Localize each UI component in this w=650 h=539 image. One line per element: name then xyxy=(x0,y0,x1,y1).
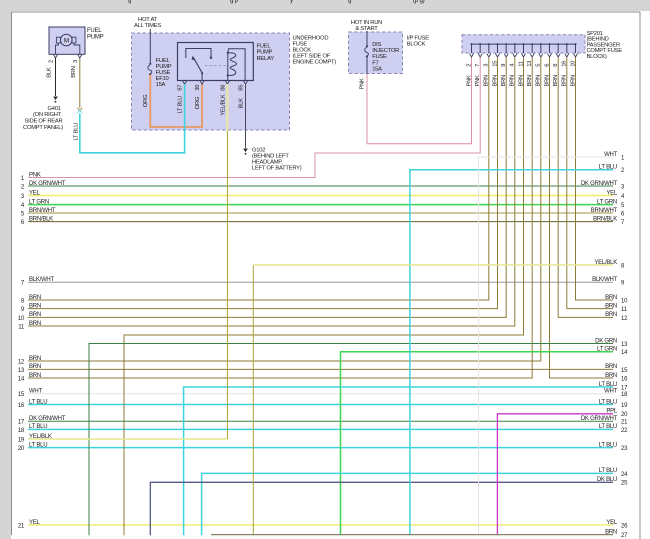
svg-text:14: 14 xyxy=(18,376,25,382)
relay pin 85 terminal xyxy=(244,81,248,84)
svg-text:9: 9 xyxy=(501,64,507,67)
SP201 pin 8 stub xyxy=(557,43,559,45)
svg-text:DIS: DIS xyxy=(372,42,381,48)
svg-text:13: 13 xyxy=(18,368,25,374)
svg-text:8: 8 xyxy=(553,64,559,67)
svg-text:6: 6 xyxy=(544,64,550,67)
svg-text:12: 12 xyxy=(18,359,25,365)
svg-text:21: 21 xyxy=(18,523,25,529)
svg-text:16: 16 xyxy=(562,61,568,67)
wire hot feed into fuse EF10 xyxy=(149,29,151,64)
svg-text:LT BLU: LT BLU xyxy=(599,424,617,430)
svg-text:BRN/BLK: BRN/BLK xyxy=(593,216,617,222)
svg-text:LT BLU: LT BLU xyxy=(29,399,47,405)
SP201 pin 9 stub xyxy=(505,43,507,45)
svg-text:ORG: ORG xyxy=(195,96,201,109)
fuel pump pin 2 terminal xyxy=(54,55,58,58)
wire row L11 BRN to SP201 pin 4 xyxy=(28,58,515,327)
svg-text:17: 17 xyxy=(621,385,628,391)
svg-text:3: 3 xyxy=(73,60,79,63)
svg-text:19: 19 xyxy=(621,403,628,409)
svg-text:BLOCK: BLOCK xyxy=(407,42,426,48)
wire row R1 WHT with drop at x=478.5 xyxy=(479,157,614,535)
wire row R10 BRN to SP201 pin 10 xyxy=(576,58,614,301)
svg-text:G401: G401 xyxy=(48,106,61,112)
svg-text:YEL: YEL xyxy=(606,190,618,196)
wire row L17/R21 DK GRN/WHT xyxy=(28,420,613,422)
fuse EF10 symbol xyxy=(149,63,151,65)
svg-text:BRN: BRN xyxy=(518,75,524,87)
svg-text:30: 30 xyxy=(195,85,201,91)
svg-text:BRN: BRN xyxy=(553,75,559,87)
svg-text:FUSE: FUSE xyxy=(372,54,387,60)
svg-text:15: 15 xyxy=(18,392,25,398)
svg-text:DK BLU: DK BLU xyxy=(597,477,617,483)
svg-text:BRN: BRN xyxy=(29,356,41,362)
svg-text:BRN: BRN xyxy=(527,75,533,87)
svg-text:16: 16 xyxy=(18,403,25,409)
svg-text:PUMP: PUMP xyxy=(87,34,104,40)
SP201 pin 7 stub xyxy=(479,43,481,45)
svg-text:LT BLU: LT BLU xyxy=(599,382,617,388)
svg-text:14: 14 xyxy=(621,350,628,356)
svg-text:DK GRN: DK GRN xyxy=(595,338,617,344)
wire row L9 BRN to SP201 pin 15 xyxy=(28,58,498,309)
svg-text:BRN: BRN xyxy=(570,75,576,87)
fuel pump relay box xyxy=(178,43,254,81)
SP201 pin 2 stub xyxy=(471,43,473,45)
svg-text:BLOCK: BLOCK xyxy=(293,48,312,54)
svg-text:PUMP: PUMP xyxy=(257,50,273,56)
svg-text:G102: G102 xyxy=(252,148,265,154)
wire row L4/R5 LT GRN xyxy=(28,204,613,206)
svg-text:13: 13 xyxy=(527,61,533,67)
wire row L2/R3 DK GRN/WHT xyxy=(28,185,613,187)
underhood fuse block dashed box xyxy=(132,33,290,130)
svg-text:17: 17 xyxy=(18,420,25,426)
relay pin 30 terminal xyxy=(200,81,204,84)
SP201 pin 4 stub xyxy=(514,43,516,45)
SP201 pin 10 stub xyxy=(575,43,577,45)
svg-text:2: 2 xyxy=(466,64,472,67)
fuel pump motor M symbol xyxy=(61,34,73,46)
svg-text:ENGINE COMPT): ENGINE COMPT) xyxy=(293,60,337,66)
wire row R20 PPL with drop at x=497.4 xyxy=(497,414,613,535)
svg-text:g p: g p xyxy=(230,0,239,4)
svg-text:LT BLU: LT BLU xyxy=(29,424,47,430)
svg-text:PNK: PNK xyxy=(360,78,366,90)
svg-text:BRN: BRN xyxy=(29,312,41,318)
svg-text:BRN: BRN xyxy=(605,373,617,379)
svg-text:DK GRN/WHT: DK GRN/WHT xyxy=(581,181,618,187)
svg-text:BRN: BRN xyxy=(29,373,41,379)
svg-text:LEFT OF BATTERY): LEFT OF BATTERY) xyxy=(252,165,302,171)
wire row L20/R23 LT BLU xyxy=(28,447,613,449)
wire row R16 BRN to SP201 pin 6 xyxy=(550,58,614,379)
wire row L8 BRN to SP201 pin 3 xyxy=(28,58,489,301)
svg-text:12: 12 xyxy=(621,316,628,322)
fuel pump component box xyxy=(49,27,85,54)
svg-text:26: 26 xyxy=(621,523,628,529)
svg-text:BRN: BRN xyxy=(605,529,617,535)
wire row L6/R7 BRN/BLK xyxy=(28,221,613,223)
SP201 pin 6 stub xyxy=(549,43,551,45)
svg-text:BRN: BRN xyxy=(510,75,516,87)
svg-text:HOT AT: HOT AT xyxy=(138,17,158,23)
svg-text:15A: 15A xyxy=(372,67,382,73)
svg-text:RELAY: RELAY xyxy=(257,56,275,62)
svg-text:ORG: ORG xyxy=(143,94,149,107)
svg-text:LT GRN: LT GRN xyxy=(597,347,617,353)
relay coil xyxy=(227,52,229,54)
svg-text:DK GRN/WHT: DK GRN/WHT xyxy=(581,416,618,422)
wire hot feed into fuse F7 xyxy=(366,31,368,46)
svg-text:24: 24 xyxy=(621,472,628,478)
svg-text:BRN: BRN xyxy=(29,295,41,301)
svg-text:WHT: WHT xyxy=(604,389,617,395)
svg-text:10: 10 xyxy=(18,316,25,322)
svg-text:3: 3 xyxy=(484,64,490,67)
wire row L12 BRN to SP201 pin 5 xyxy=(28,58,541,362)
svg-text:WHT: WHT xyxy=(604,152,617,158)
svg-text:87: 87 xyxy=(178,85,184,91)
svg-text:BRN: BRN xyxy=(71,66,77,78)
svg-text:BLOCK): BLOCK) xyxy=(587,54,607,60)
ground G401 xyxy=(53,97,58,101)
svg-text:WHT: WHT xyxy=(29,389,42,395)
fuel pump brush right xyxy=(72,37,76,43)
svg-text:DK GRN/WHT: DK GRN/WHT xyxy=(29,416,66,422)
wire BLK fuel pump to G401 xyxy=(55,58,57,96)
svg-text:LT BLU: LT BLU xyxy=(599,399,617,405)
wire row L21/R26 YEL xyxy=(28,524,613,526)
wire row L16/R19 LT BLU xyxy=(28,404,613,406)
svg-text:BRN: BRN xyxy=(544,75,550,87)
svg-text:18: 18 xyxy=(18,428,25,434)
wire row L10 BRN to SP201 pin 9 xyxy=(28,58,506,318)
svg-text:SIDE OF REAR: SIDE OF REAR xyxy=(25,119,63,125)
relay pin 86 terminal xyxy=(225,81,229,84)
wire LT BLU relay pin 87 inside box xyxy=(184,84,186,132)
wire row L14 BRN to SP201 pin 13 xyxy=(28,58,532,379)
SP201 pin 5 stub xyxy=(540,43,542,45)
wire row L5/R6 BRN/WHT xyxy=(28,212,613,214)
svg-text:25: 25 xyxy=(621,481,628,487)
svg-text:LT BLU: LT BLU xyxy=(599,165,617,171)
relay pin 87 terminal xyxy=(183,81,187,84)
svg-text:LT BLU: LT BLU xyxy=(29,442,47,448)
SP201 pin 16 stub xyxy=(566,43,568,45)
wire row R2 LT BLU with drop at x=409.9 xyxy=(410,170,613,535)
svg-text:BRN: BRN xyxy=(29,303,41,309)
relay switch blade with arrowhead xyxy=(193,57,202,73)
wire row R17 LT BLU with drop at x=183.6 xyxy=(184,387,613,535)
svg-text:BRN/BLK: BRN/BLK xyxy=(29,216,53,222)
wire BRN fuel pump to splice xyxy=(79,58,81,108)
svg-text:21: 21 xyxy=(621,420,628,426)
wire LT BLU splice toward relay pin 87 (below fuse block) xyxy=(80,113,185,152)
svg-text:85: 85 xyxy=(239,85,245,91)
inline connector break symbol xyxy=(78,108,82,110)
wire row L3/R4 YEL xyxy=(28,195,613,197)
fuel pump pin 3 terminal xyxy=(78,55,82,58)
svg-text:BRN: BRN xyxy=(562,75,568,87)
svg-text:PNK: PNK xyxy=(466,75,472,87)
svg-text:M: M xyxy=(64,38,69,45)
wire row L7/R9 BLK/WHT xyxy=(28,281,613,283)
svg-text:(ON RIGHT: (ON RIGHT xyxy=(33,112,62,118)
svg-text:18: 18 xyxy=(621,392,628,398)
svg-text:EF10: EF10 xyxy=(156,76,169,82)
svg-text:LT BLU: LT BLU xyxy=(599,442,617,448)
svg-text:BRN: BRN xyxy=(605,303,617,309)
svg-text:BLK: BLK xyxy=(47,67,53,78)
relay actuation dashed link xyxy=(205,65,226,67)
svg-text:DK GRN/WHT: DK GRN/WHT xyxy=(29,181,66,187)
SP201 splice pack dashed box xyxy=(462,35,585,53)
svg-text:20: 20 xyxy=(621,412,628,418)
wire row R11 BRN to SP201 pin 16 xyxy=(567,58,613,309)
svg-text:YEL: YEL xyxy=(29,520,41,526)
SP201 pin 3 stub xyxy=(488,43,490,45)
wire ORG fuse EF10 to relay pin 30 xyxy=(150,75,202,127)
wire BRN SP201 pin 11 down page bottom via x=124 xyxy=(124,58,524,536)
svg-text:COMPT PANEL): COMPT PANEL) xyxy=(23,125,63,131)
svg-text:YEL/BLK: YEL/BLK xyxy=(29,434,52,440)
svg-text:PPL: PPL xyxy=(606,409,618,415)
svg-text:10: 10 xyxy=(570,61,576,67)
relay switch contact bracket xyxy=(186,49,211,59)
wire row R13 DK GRN with drop at x=89 xyxy=(89,344,613,536)
svg-text:13: 13 xyxy=(621,342,628,348)
wire row L19 YEL/BLK to relay pin 86 xyxy=(28,438,227,440)
svg-text:LT BLU: LT BLU xyxy=(178,96,184,114)
svg-text:BRN/WHT: BRN/WHT xyxy=(29,208,56,214)
fuel pump internal wires to pins xyxy=(56,43,59,54)
svg-text:BRN: BRN xyxy=(492,75,498,87)
svg-text:UNDERHOOD: UNDERHOOD xyxy=(293,35,329,41)
svg-text:BRN: BRN xyxy=(484,75,490,87)
svg-text:15: 15 xyxy=(621,368,628,374)
svg-text:15: 15 xyxy=(492,61,498,67)
svg-text:BLK/WHT: BLK/WHT xyxy=(592,277,618,283)
svg-text:BRN: BRN xyxy=(29,364,41,370)
wire row L13/R15 BRN xyxy=(28,368,613,370)
svg-text:LT GRN: LT GRN xyxy=(597,199,617,205)
svg-text:(p g): (p g) xyxy=(413,0,425,4)
svg-text:ALL TIMES: ALL TIMES xyxy=(134,23,161,29)
svg-text:(LEFT SIDE OF: (LEFT SIDE OF xyxy=(293,54,331,60)
svg-text:FUSE: FUSE xyxy=(293,41,308,47)
svg-text:BLK: BLK xyxy=(239,98,245,109)
svg-text:I/P FUSE: I/P FUSE xyxy=(407,35,429,41)
svg-text:BRN: BRN xyxy=(501,75,507,87)
svg-text:PNK: PNK xyxy=(29,172,41,178)
svg-text:F7: F7 xyxy=(372,60,378,66)
svg-text:YEL/BLK: YEL/BLK xyxy=(594,260,617,266)
wire YEL/BLK relay pin 86 inside box xyxy=(226,84,228,131)
svg-text:BRN: BRN xyxy=(605,312,617,318)
svg-text:7: 7 xyxy=(475,64,481,67)
svg-text:BRN: BRN xyxy=(29,321,41,327)
SP201 pin 11 stub xyxy=(523,43,525,45)
SP201 pin 15 stub xyxy=(497,43,499,45)
svg-text:PNK: PNK xyxy=(475,75,481,87)
svg-text:11: 11 xyxy=(518,61,524,67)
wire PNK from DIS fuse to SP201 pin 2 xyxy=(367,58,472,144)
wire row R25 DK BLU with drop at x=150.3 xyxy=(150,482,613,535)
SP201 bus bar xyxy=(472,43,576,45)
svg-text:23: 23 xyxy=(621,446,628,452)
wire row R8 YEL/BLK drop at x=253.3 xyxy=(252,265,254,535)
svg-text:86: 86 xyxy=(220,85,226,91)
svg-text:10: 10 xyxy=(621,298,628,304)
wire row R27 BRN bottom xyxy=(211,534,613,536)
svg-text:15A: 15A xyxy=(156,82,166,88)
svg-text:27: 27 xyxy=(621,533,628,539)
svg-text:22: 22 xyxy=(621,428,628,434)
svg-text:BRN: BRN xyxy=(605,364,617,370)
svg-text:YEL/BLK: YEL/BLK xyxy=(220,94,226,115)
wire row R24 LT BLU with drop at x=201.6 xyxy=(202,473,613,535)
fuse F7 symbol xyxy=(366,45,368,47)
SP201 pin 13 stub xyxy=(531,43,533,45)
wire row R12 BRN to SP201 pin 8 xyxy=(558,58,613,318)
wire row L15/R18 WHT xyxy=(28,393,613,395)
svg-text:YEL: YEL xyxy=(29,190,41,196)
wire BLK relay pin 85 to G102 xyxy=(245,84,247,148)
svg-text:16: 16 xyxy=(621,376,628,382)
svg-text:BRN/WHT: BRN/WHT xyxy=(591,208,618,214)
svg-text:11: 11 xyxy=(18,324,25,330)
svg-text:11: 11 xyxy=(621,307,628,313)
wire row L18/R22 LT BLU xyxy=(28,428,613,430)
svg-text:LT BLU: LT BLU xyxy=(73,123,79,141)
svg-text:20: 20 xyxy=(18,446,25,452)
svg-text:19: 19 xyxy=(18,437,25,443)
svg-text:LT BLU: LT BLU xyxy=(599,468,617,474)
svg-text:LT GRN: LT GRN xyxy=(29,199,49,205)
svg-text:BLK/WHT: BLK/WHT xyxy=(29,277,55,283)
svg-text:INJECTOR: INJECTOR xyxy=(372,48,399,54)
svg-text:BRN: BRN xyxy=(536,75,542,87)
svg-text:5: 5 xyxy=(536,64,542,67)
ground G102 xyxy=(243,149,248,153)
svg-text:BRN: BRN xyxy=(605,295,617,301)
svg-text:2: 2 xyxy=(49,60,55,63)
wire row R14 LT GRN with drop at x=340.5 xyxy=(341,352,614,535)
svg-text:YEL: YEL xyxy=(606,520,618,526)
svg-text:FUEL: FUEL xyxy=(87,28,102,34)
fuel pump brush left xyxy=(56,37,60,43)
wire row L1 PNK to SP201 pin 7 (staircase) xyxy=(28,58,480,178)
I/P fuse block dashed box xyxy=(349,32,403,74)
svg-text:FUEL: FUEL xyxy=(257,44,272,50)
